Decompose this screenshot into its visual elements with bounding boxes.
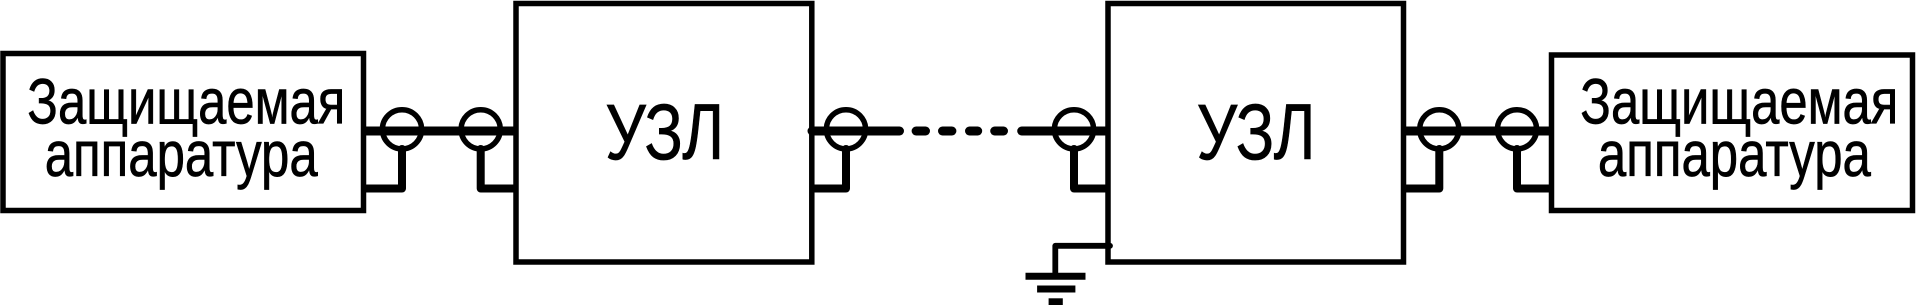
wire: dashed gap to УЗЛ2 left edge (solid) xyxy=(1022,127,1106,136)
wire: УЗЛ2 to right box xyxy=(1406,127,1550,136)
terminal circle 5 xyxy=(1420,110,1459,149)
wire: dashed line segment 4 xyxy=(995,127,1004,136)
ground bar 3 xyxy=(1049,298,1063,305)
wire: dashed line segment 2 xyxy=(943,127,952,136)
wire: dashed line segment 1 xyxy=(916,127,925,136)
svg-text:УЗЛ: УЗЛ xyxy=(1197,87,1316,176)
wire: left box to УЗЛ1 xyxy=(366,127,514,136)
block: protected equipment (left) xyxy=(3,54,364,211)
wire: ground stem xyxy=(1052,246,1058,273)
svg-text:аппаратура: аппаратура xyxy=(1598,118,1871,190)
wire: УЗЛ1 right edge to dashed gap (solid) xyxy=(812,127,900,136)
block: protected equipment (right) xyxy=(1552,55,1913,211)
svg-text:УЗЛ: УЗЛ xyxy=(605,87,724,176)
terminal circle 3 xyxy=(826,110,865,149)
wire: elbow from terminal 5 to УЗЛ2 xyxy=(1406,149,1440,189)
block: УЗЛ 1 xyxy=(516,4,812,263)
terminal circle 4 xyxy=(1054,110,1093,149)
ground bar 1 xyxy=(1026,273,1086,280)
wire: elbow from terminal 2 to УЗЛ1 xyxy=(481,149,514,189)
terminal circle 6 xyxy=(1497,110,1536,149)
wire: elbow from terminal 1 to left box xyxy=(367,149,403,189)
terminal circle 2 xyxy=(461,110,500,149)
wire: ground stub from УЗЛ2 left edge xyxy=(1055,243,1110,249)
svg-text:аппаратура: аппаратура xyxy=(45,118,318,190)
ground bar 2 xyxy=(1037,286,1075,293)
wire: elbow from terminal 4 to УЗЛ2 xyxy=(1074,149,1107,189)
wire: elbow from terminal 6 to right box xyxy=(1517,149,1550,189)
wire: elbow from terminal 3 to УЗЛ1 xyxy=(814,149,847,189)
terminal circle 1 xyxy=(382,110,421,149)
block: УЗЛ 2 xyxy=(1108,4,1404,263)
wire: dashed line segment 3 xyxy=(970,127,978,136)
